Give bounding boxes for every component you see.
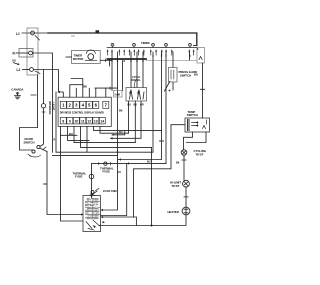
svg-text:20,000 OHM: 20,000 OHM: [103, 190, 117, 193]
svg-text:US: US: [12, 59, 16, 63]
svg-text:R: R: [54, 139, 56, 142]
svg-text:SIGNAL: SIGNAL: [132, 79, 142, 82]
svg-text:5.6M: 5.6M: [115, 93, 120, 96]
svg-text:SWITCH: SWITCH: [187, 113, 198, 117]
svg-text:DRYNESS CONTROL DISPLAY BOARD: DRYNESS CONTROL DISPLAY BOARD: [60, 112, 104, 115]
svg-text:CANADA: CANADA: [11, 87, 23, 91]
svg-text:TH'ST: TH'ST: [172, 184, 180, 188]
svg-text:13: 13: [94, 119, 98, 123]
svg-text:L1: L1: [16, 32, 20, 36]
svg-text:14: 14: [100, 119, 104, 123]
svg-text:TH'ST: TH'ST: [196, 153, 204, 157]
svg-text:SWITCH: SWITCH: [24, 141, 35, 145]
svg-text:BU: BU: [194, 73, 198, 77]
svg-text:OR: OR: [140, 104, 144, 107]
svg-text:MOTOR: MOTOR: [73, 57, 83, 61]
svg-text:BU: BU: [147, 161, 151, 164]
svg-text:BU: BU: [128, 104, 132, 107]
svg-text:BK: BK: [83, 84, 87, 88]
svg-text:BK: BK: [134, 104, 138, 107]
svg-text:HEATER: HEATER: [168, 210, 179, 214]
svg-text:BU: BU: [69, 132, 73, 136]
svg-text:INTERIOR: INTERIOR: [48, 101, 52, 114]
svg-text:L2: L2: [17, 68, 21, 72]
svg-text:11: 11: [81, 119, 85, 123]
svg-text:SWITCH: SWITCH: [180, 73, 191, 77]
svg-text:TIMER: TIMER: [141, 41, 150, 45]
svg-text:BK: BK: [176, 162, 180, 165]
svg-text:12: 12: [87, 119, 91, 123]
svg-text:BU: BU: [119, 131, 123, 134]
svg-text:10: 10: [74, 119, 78, 123]
svg-text:FUSE: FUSE: [75, 175, 83, 179]
svg-text:LIGHT: LIGHT: [52, 102, 56, 111]
svg-text:BK: BK: [119, 110, 123, 113]
svg-text:FUSE: FUSE: [103, 170, 111, 174]
svg-text:9: 9: [69, 119, 71, 123]
svg-text:8: 8: [62, 119, 64, 123]
